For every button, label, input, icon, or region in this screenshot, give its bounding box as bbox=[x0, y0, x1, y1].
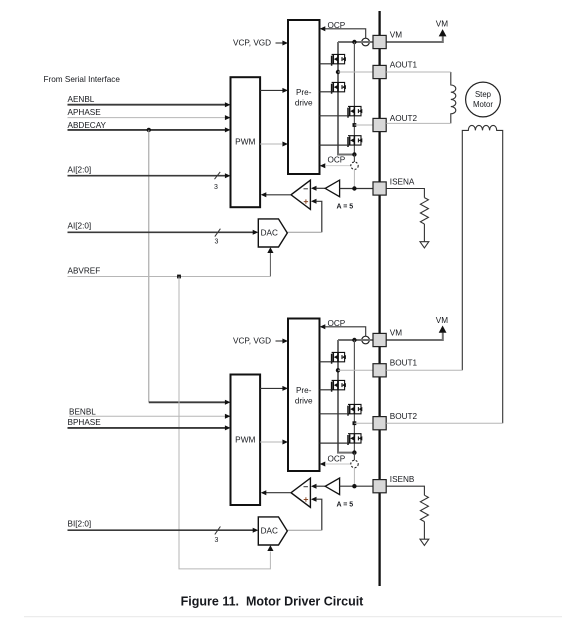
wire ABDECAY bbox=[68, 129, 227, 131]
svg-text:drive: drive bbox=[295, 397, 313, 406]
wire DAC A to comparator bbox=[311, 199, 317, 204]
comparator A bbox=[291, 180, 310, 209]
block DAC B bbox=[258, 517, 287, 545]
wire resistor B to ground bbox=[423, 522, 425, 540]
node ISENA junction bbox=[352, 186, 356, 190]
wire gate B1 bbox=[320, 361, 332, 363]
wire BOUT2 to winding bbox=[386, 422, 503, 424]
wire resistor A to ground bbox=[423, 224, 425, 242]
resistor RSENSE A bbox=[420, 198, 428, 224]
node common source B bbox=[352, 450, 356, 454]
wire half-bridge B1 bbox=[338, 340, 354, 453]
pad ISENB bbox=[373, 480, 386, 493]
svg-text:Motor: Motor bbox=[473, 100, 493, 109]
wire BOUT1 junction to pad bbox=[338, 369, 373, 371]
wire AI[2:0] to PWM bbox=[68, 175, 227, 177]
svg-text:BI[2:0]: BI[2:0] bbox=[68, 520, 92, 529]
node BOUT2 junction bbox=[353, 421, 357, 425]
wire gate B4 bbox=[320, 442, 349, 444]
wire DAC A ref input bbox=[269, 253, 271, 277]
svg-text:From Serial Interface: From Serial Interface bbox=[44, 75, 121, 84]
svg-text:A = 5: A = 5 bbox=[337, 502, 354, 509]
comparator B bbox=[291, 478, 310, 507]
svg-text:OCP: OCP bbox=[328, 155, 346, 164]
wire OCP top A bbox=[320, 26, 326, 31]
svg-text:AI[2:0]: AI[2:0] bbox=[68, 166, 92, 175]
svg-text:BPHASE: BPHASE bbox=[68, 418, 102, 427]
wire gate B3 bbox=[320, 413, 349, 415]
transistor B high2 bbox=[348, 404, 362, 415]
page hairline bbox=[24, 616, 562, 618]
wire BI[2:0] to DAC bbox=[68, 529, 254, 531]
step motor circle bbox=[466, 82, 501, 117]
block PWM B bbox=[231, 375, 261, 506]
amp A=5 A bbox=[325, 180, 339, 197]
wire amp A to comparator bbox=[311, 186, 317, 191]
transistor B low1 bbox=[332, 380, 346, 391]
wire gate A3 bbox=[320, 115, 349, 117]
wire VCP VGD bbox=[276, 42, 284, 44]
pad BOUT2 bbox=[373, 417, 386, 430]
svg-text:DAC: DAC bbox=[261, 527, 278, 536]
ground A bbox=[420, 242, 429, 248]
wire PWM B to Pre-drive bbox=[260, 387, 283, 389]
wire ABVREF bbox=[68, 276, 271, 278]
wire PWM A to Pre-drive bbox=[260, 89, 283, 91]
wire VM rail A bbox=[338, 41, 373, 43]
transistor A low1 bbox=[332, 82, 346, 93]
wire ISENA row bbox=[340, 188, 373, 190]
block DAC A bbox=[258, 219, 287, 247]
wire AENBL bbox=[68, 104, 227, 106]
svg-text:VM: VM bbox=[436, 19, 448, 28]
svg-text:AOUT1: AOUT1 bbox=[390, 60, 418, 69]
svg-text:3: 3 bbox=[215, 537, 219, 544]
wire APHASE bbox=[68, 117, 227, 119]
wire AI[2:0] to DAC bbox=[68, 231, 254, 233]
svg-text:APHASE: APHASE bbox=[68, 108, 102, 117]
svg-text:ABDECAY: ABDECAY bbox=[68, 121, 107, 130]
wire half-bridge A2 bbox=[353, 42, 355, 155]
wire ISENB to sense resistor bbox=[386, 486, 424, 495]
wire AOUT1 junction to pad bbox=[338, 71, 373, 73]
wire OCP bottom A bbox=[320, 163, 326, 168]
wire comparator B output to PWM bbox=[266, 492, 291, 494]
transistor A high2 bbox=[348, 106, 362, 117]
node VM junction A bbox=[352, 40, 356, 44]
svg-text:3: 3 bbox=[215, 239, 219, 246]
svg-text:VM: VM bbox=[390, 329, 402, 338]
ground B bbox=[420, 539, 429, 545]
OCP sense circle B dashed bbox=[351, 460, 358, 467]
power VM arrow A bbox=[439, 29, 447, 36]
svg-text:VCP, VGD: VCP, VGD bbox=[233, 39, 271, 48]
svg-text:ISENA: ISENA bbox=[390, 177, 415, 186]
resistor RSENSE B bbox=[420, 495, 428, 521]
current sense circle B bbox=[362, 336, 370, 344]
wire OCP circle to ISENA bbox=[353, 170, 355, 189]
svg-text:3: 3 bbox=[214, 184, 218, 191]
block Pre-drive A bbox=[288, 20, 320, 174]
svg-text:Pre-: Pre- bbox=[296, 88, 312, 97]
wire AOUT2 junction to pad bbox=[354, 124, 373, 126]
node AOUT1 junction bbox=[336, 70, 340, 74]
wire gate A2 bbox=[320, 91, 332, 93]
wire OCP bottom B bbox=[320, 462, 326, 467]
wire PWM A aux to Pre-drive bbox=[260, 143, 282, 145]
wire OCP circle to ISENB bbox=[353, 468, 355, 486]
svg-text:ISENB: ISENB bbox=[390, 475, 415, 484]
node common source A bbox=[352, 152, 356, 156]
pad VM B bbox=[373, 333, 386, 346]
node ABDECAY junction bbox=[147, 128, 151, 132]
bus width slash 3 dac A bbox=[215, 229, 221, 237]
svg-text:AI[2:0]: AI[2:0] bbox=[68, 221, 92, 230]
svg-text:DAC: DAC bbox=[261, 229, 278, 238]
svg-text:Step: Step bbox=[475, 90, 492, 99]
wire BOUT1 to winding bbox=[386, 369, 462, 371]
svg-text:AOUT2: AOUT2 bbox=[390, 114, 418, 123]
wire gate B2 bbox=[320, 389, 332, 391]
bus width slash 3 bbox=[215, 172, 221, 179]
main supply bus bbox=[378, 11, 380, 586]
node ISENB junction bbox=[352, 484, 356, 488]
wire ABDECAY to channel B bbox=[148, 130, 150, 402]
svg-text:BENBL: BENBL bbox=[69, 407, 96, 416]
current sense circle A bbox=[362, 38, 370, 46]
svg-text:VM: VM bbox=[436, 316, 448, 325]
svg-text:PWM: PWM bbox=[235, 137, 255, 147]
svg-text:drive: drive bbox=[295, 99, 313, 108]
bus width slash 3 dac B bbox=[215, 527, 221, 535]
svg-text:A = 5: A = 5 bbox=[337, 204, 354, 211]
wire AOUT1 to winding bbox=[386, 71, 451, 73]
OCP sense circle A dashed bbox=[351, 162, 358, 169]
pad ISENA bbox=[373, 182, 386, 195]
wire AOUT2 to winding bbox=[386, 122, 451, 124]
transistor A high1 bbox=[332, 54, 346, 65]
wire half-bridge A1 bbox=[338, 42, 354, 155]
node BOUT1 junction bbox=[336, 368, 340, 372]
amp A=5 B bbox=[325, 478, 339, 495]
node AOUT2 junction bbox=[353, 123, 357, 127]
wire BOUT2 junction to pad bbox=[354, 422, 373, 424]
pad AOUT2 bbox=[373, 118, 386, 131]
winding B coil bbox=[462, 125, 502, 423]
block Pre-drive B bbox=[288, 319, 320, 472]
svg-text:AENBL: AENBL bbox=[68, 95, 95, 104]
wire PWM B aux to Pre-drive bbox=[260, 441, 282, 443]
wire DAC B ref input bbox=[267, 545, 273, 551]
transistor B high1 bbox=[332, 352, 346, 363]
wire VM rail B bbox=[338, 339, 373, 341]
wire comparator A output to PWM bbox=[266, 194, 291, 196]
node ABVREF junction bbox=[177, 275, 181, 279]
wire amp B to comparator bbox=[311, 484, 317, 489]
block PWM A bbox=[231, 77, 261, 207]
node VM junction B bbox=[352, 338, 356, 342]
svg-text:ABVREF: ABVREF bbox=[68, 267, 101, 276]
pad BOUT1 bbox=[373, 364, 386, 377]
svg-text:PWM: PWM bbox=[235, 435, 255, 445]
wire ABVREF to channel B bbox=[179, 277, 270, 569]
svg-text:BOUT2: BOUT2 bbox=[390, 412, 418, 421]
svg-text:VM: VM bbox=[390, 31, 402, 40]
wire half-bridge B2 bbox=[353, 340, 355, 453]
wire BPHASE bbox=[68, 427, 227, 429]
wire OCP top B bbox=[320, 324, 326, 329]
svg-text:Pre-: Pre- bbox=[296, 386, 312, 395]
transistor B low2 bbox=[348, 434, 362, 445]
wire BENBL bbox=[69, 415, 226, 417]
wire common to OCP circle B bbox=[353, 453, 355, 461]
power VM arrow B bbox=[439, 326, 447, 333]
winding A coil bbox=[451, 72, 456, 123]
wire gate A1 bbox=[320, 63, 332, 65]
wire VCP VGD B bbox=[276, 340, 284, 342]
wire gate A4 bbox=[320, 144, 349, 146]
wire common to OCP circle A bbox=[353, 155, 355, 163]
transistor A low2 bbox=[348, 136, 362, 147]
wire DAC B to comparator bbox=[311, 497, 317, 502]
pad VM A bbox=[373, 35, 386, 48]
wire ISENB row bbox=[340, 485, 373, 487]
svg-text:VCP, VGD: VCP, VGD bbox=[233, 337, 271, 346]
svg-text:Figure 11. Motor Driver Circu: Figure 11. Motor Driver Circuit bbox=[181, 594, 365, 608]
svg-text:BOUT1: BOUT1 bbox=[390, 359, 418, 368]
wire ISENA to sense resistor bbox=[386, 189, 424, 198]
pad AOUT1 bbox=[373, 65, 386, 78]
svg-text:OCP: OCP bbox=[328, 455, 346, 464]
